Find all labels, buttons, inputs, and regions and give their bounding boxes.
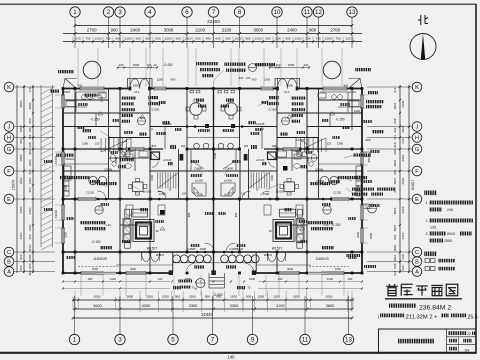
north arrow label BEI <box>418 15 428 25</box>
stair door arcs lower <box>157 192 166 196</box>
svg-text:4: 4 <box>148 9 152 16</box>
grid bubble axis B left <box>4 257 14 267</box>
type label left <box>60 176 90 179</box>
window bottom wall left2 <box>126 271 146 275</box>
svg-text:1500: 1500 <box>237 247 244 251</box>
svg-text:1500: 1500 <box>146 295 153 299</box>
svg-text:A: A <box>151 127 153 131</box>
svg-text:4200: 4200 <box>142 303 151 308</box>
svg-text:945: 945 <box>393 142 397 147</box>
grid bubble axis 9 bottom <box>247 334 257 344</box>
kitchen counter right <box>347 92 349 112</box>
kitchen window left <box>80 86 104 90</box>
north arrow needle <box>421 34 425 60</box>
svg-text:900: 900 <box>19 138 23 143</box>
interior wall col x307 <box>306 89 308 274</box>
svg-text:M-1: M-1 <box>134 90 139 94</box>
stair shaft square left <box>151 152 160 160</box>
svg-text:-0.300: -0.300 <box>213 293 222 297</box>
kitchen window right <box>323 86 347 90</box>
extension lines right <box>362 94 368 96</box>
sofa strip left <box>123 219 131 243</box>
svg-text:72: 72 <box>191 286 195 290</box>
interior wall col x108.5 <box>108 89 110 200</box>
svg-text:1000: 1000 <box>369 232 373 239</box>
legend row 2 <box>425 267 430 271</box>
partition x165 <box>164 127 166 150</box>
svg-text:3300: 3300 <box>230 303 239 308</box>
partition storage left <box>63 163 109 165</box>
svg-text:Ø100: Ø100 <box>447 232 455 236</box>
building exterior top wall <box>63 88 130 90</box>
svg-text:2400: 2400 <box>114 157 118 163</box>
bottom overall dimension 22440 <box>73 317 352 319</box>
partition y140 center <box>187 137 214 139</box>
party wall col x213.5 <box>213 89 215 274</box>
svg-text:2100: 2100 <box>222 27 232 32</box>
svg-text:1500: 1500 <box>273 295 280 299</box>
svg-text:1800: 1800 <box>28 159 32 166</box>
svg-text:11: 11 <box>304 9 311 16</box>
svg-text:140: 140 <box>228 355 236 360</box>
svg-text:4200: 4200 <box>276 303 285 308</box>
svg-text:-0.300: -0.300 <box>151 108 160 112</box>
svg-text:22200: 22200 <box>207 19 220 24</box>
svg-text:3000: 3000 <box>94 295 101 299</box>
svg-text:2400: 2400 <box>28 207 32 214</box>
svg-text:1200: 1200 <box>95 37 102 41</box>
grid bubble axis 13 bottom <box>343 334 353 344</box>
svg-text:900: 900 <box>285 37 290 41</box>
svg-text:C: C <box>415 250 419 256</box>
grid bubble axis 5 bottom <box>168 334 178 344</box>
garage door track right <box>309 266 349 268</box>
grid bubble axis G right <box>412 144 422 154</box>
svg-text:6: 6 <box>185 9 189 16</box>
square table with chairs left <box>133 182 144 192</box>
svg-text:900: 900 <box>135 37 140 41</box>
svg-text:1800: 1800 <box>401 155 405 162</box>
interior wall col x187 <box>186 89 188 150</box>
grid bubble axis E left <box>4 194 14 204</box>
svg-text:1: 1 <box>73 337 77 344</box>
svg-text:900: 900 <box>245 37 250 41</box>
entrance double door M-1 left <box>130 79 149 89</box>
stair fixtures dark <box>180 154 184 161</box>
svg-text:C2006: C2006 <box>54 209 58 218</box>
svg-text:-0.450: -0.450 <box>254 63 263 67</box>
svg-text:1300: 1300 <box>264 78 271 82</box>
svg-text:H: H <box>7 136 11 142</box>
svg-text:11: 11 <box>302 337 309 344</box>
interior wall col x150 <box>149 89 151 200</box>
bedroom label left <box>77 126 85 129</box>
stair upper door arc left <box>152 161 158 167</box>
svg-text:±0.000: ±0.000 <box>276 190 285 194</box>
dining table left <box>190 103 203 116</box>
svg-text:12: 12 <box>315 9 322 16</box>
svg-text:900: 900 <box>175 295 180 299</box>
svg-text:1500: 1500 <box>150 175 154 181</box>
svg-text:E: E <box>7 197 11 203</box>
corner tables left <box>125 209 130 217</box>
building exterior bottom wall <box>63 272 173 274</box>
corner tables right <box>297 209 302 217</box>
svg-text:240: 240 <box>119 63 124 67</box>
svg-text:2700: 2700 <box>330 27 340 32</box>
svg-text:120: 120 <box>345 37 350 41</box>
grid bubble axis A left <box>4 267 14 277</box>
type label right <box>337 176 367 179</box>
title block drawing name <box>398 339 434 344</box>
svg-text:3000: 3000 <box>164 27 174 32</box>
sofa strip right <box>296 219 304 243</box>
svg-text:1680: 1680 <box>224 193 230 197</box>
svg-text:800: 800 <box>367 157 371 162</box>
porch columns right group <box>221 255 229 263</box>
svg-text:1.: 1. <box>426 201 429 205</box>
svg-text:C1215: C1215 <box>54 155 58 164</box>
building exterior right wall <box>361 89 363 274</box>
svg-text:G: G <box>415 147 419 153</box>
svg-text:180: 180 <box>348 277 353 281</box>
svg-text:13: 13 <box>345 337 352 344</box>
window bottom wall right2 <box>279 271 299 275</box>
balcony door arcs bottom <box>186 263 194 270</box>
window left wall mid C1215 <box>61 152 65 165</box>
svg-text:750: 750 <box>315 37 320 41</box>
svg-text:1.30: 1.30 <box>323 223 329 227</box>
left dimension chain outer <box>23 85 25 273</box>
svg-text:3600: 3600 <box>93 303 102 308</box>
inner dimension line above entries <box>117 67 158 69</box>
window bottom wall left W1527 <box>81 271 103 275</box>
svg-text:2400: 2400 <box>306 157 310 163</box>
sofa set right <box>264 205 271 215</box>
svg-text:300: 300 <box>28 270 32 275</box>
grid bubble axis J left <box>4 122 14 132</box>
svg-text:1050: 1050 <box>401 126 405 133</box>
extension lines bottom <box>80 275 82 296</box>
svg-text:100: 100 <box>276 63 281 67</box>
svg-text:15070: 15070 <box>12 180 16 191</box>
fixtures under top wall <box>190 90 193 93</box>
svg-text:±0.050: ±0.050 <box>195 179 203 183</box>
svg-text:1050: 1050 <box>28 254 32 261</box>
svg-text:2.: 2. <box>426 219 429 223</box>
svg-text:13: 13 <box>349 9 356 16</box>
structural columns <box>62 87 364 274</box>
svg-text:3300: 3300 <box>356 232 360 238</box>
svg-text:C1515: C1515 <box>62 90 71 94</box>
kitchen note stack left <box>121 97 136 100</box>
svg-text:J: J <box>8 125 11 131</box>
wc fixtures left <box>110 154 115 161</box>
svg-text:B: B <box>7 260 11 266</box>
svg-text:1800: 1800 <box>64 185 68 191</box>
svg-text:3000: 3000 <box>253 27 263 32</box>
interior door arcs <box>120 141 127 149</box>
detail mark circle right <box>323 206 331 214</box>
svg-text:2400: 2400 <box>401 207 405 214</box>
svg-text:±0.050: ±0.050 <box>224 179 232 183</box>
extra tiny labels <box>78 103 88 106</box>
svg-text:1800: 1800 <box>287 84 294 88</box>
svg-text:C1205: C1205 <box>163 122 172 126</box>
svg-text:900: 900 <box>401 254 405 259</box>
detail mark circle bottom center <box>196 278 205 287</box>
bay window left C1205 <box>126 147 144 151</box>
svg-text:1050: 1050 <box>162 295 169 299</box>
grid bubble axis 11 top <box>302 7 312 17</box>
grid bubble axis J right <box>412 122 422 132</box>
porch columns verticals <box>172 252 174 273</box>
sheet frame bottom <box>0 352 477 354</box>
svg-text:900: 900 <box>181 144 186 148</box>
interior wall col x277 <box>276 89 278 200</box>
bathtub left <box>64 166 71 179</box>
grid bubble axis H left <box>4 133 14 143</box>
svg-text:900: 900 <box>155 37 160 41</box>
svg-text:4120: 4120 <box>110 277 117 281</box>
svg-text:600: 600 <box>401 265 405 270</box>
svg-text:3600: 3600 <box>326 303 335 308</box>
svg-text:15070: 15070 <box>411 180 415 191</box>
interior dim line2 under building <box>63 288 170 290</box>
corner wedge left <box>63 79 77 89</box>
svg-text:1380: 1380 <box>82 142 89 146</box>
svg-text:400: 400 <box>28 187 32 192</box>
svg-text:900: 900 <box>344 84 349 88</box>
svg-text:900: 900 <box>19 254 23 259</box>
svg-text:3300: 3300 <box>64 232 68 238</box>
washer squares right <box>297 152 302 157</box>
window bottom wall right W1527 <box>322 271 344 275</box>
svg-text:3000: 3000 <box>130 267 136 271</box>
svg-text:7: 7 <box>98 206 100 210</box>
sheet frame top <box>0 3 477 5</box>
svg-text:3000: 3000 <box>393 245 397 252</box>
svg-text:1500: 1500 <box>200 247 207 251</box>
svg-text:1050: 1050 <box>393 255 397 262</box>
entrance double door M-1 right <box>278 79 297 89</box>
grid bubble axis C right <box>412 247 422 257</box>
svg-text:C1505: C1505 <box>187 247 196 251</box>
svg-text:900: 900 <box>401 138 405 143</box>
grid bubble axis 1 bottom <box>69 334 79 344</box>
svg-text:3000: 3000 <box>28 244 32 251</box>
svg-text:C1215: C1215 <box>296 138 305 142</box>
svg-text:M0821: M0821 <box>156 253 165 257</box>
kitchen note stack right <box>291 97 306 100</box>
svg-text:F: F <box>7 169 11 175</box>
window right wall lower2 <box>360 228 364 243</box>
grid bubble axis 13 top <box>347 7 357 17</box>
svg-text:1500: 1500 <box>230 295 237 299</box>
grid bubble axis E right <box>412 194 422 204</box>
svg-text:400: 400 <box>393 234 397 239</box>
grid bubble axis 4 top <box>145 7 155 17</box>
grid bubble axis 7 top <box>208 7 218 17</box>
living room centerpiece right <box>273 220 294 242</box>
svg-text:1200: 1200 <box>28 177 32 184</box>
svg-text:900: 900 <box>393 118 397 123</box>
svg-text:7: 7 <box>211 337 215 344</box>
window top wall right C1206 <box>261 86 273 90</box>
svg-text:400: 400 <box>393 169 397 174</box>
grid bubble axis B right <box>412 257 422 267</box>
grid bubble axis 7 bottom <box>207 334 217 344</box>
svg-text:900: 900 <box>175 37 180 41</box>
svg-text:1200: 1200 <box>100 95 104 102</box>
partition baths right <box>277 157 319 159</box>
interior wall col x352 <box>351 89 353 131</box>
svg-text:900: 900 <box>393 263 397 268</box>
detail circle right edge <box>368 204 377 213</box>
room and elevation labels <box>82 129 91 132</box>
stair walls right <box>248 149 250 199</box>
svg-text:900: 900 <box>28 118 32 123</box>
elevation markers <box>140 115 145 118</box>
svg-text:1800: 1800 <box>19 154 23 161</box>
svg-text:900: 900 <box>234 212 238 217</box>
svg-text:-0.150: -0.150 <box>90 118 99 122</box>
svg-text:+0.020: +0.020 <box>256 158 265 162</box>
svg-text:C0606: C0606 <box>315 168 323 172</box>
svg-text:M0921: M0921 <box>66 157 75 161</box>
bottom dimension row 2 <box>73 308 352 310</box>
svg-text:3600: 3600 <box>393 103 397 110</box>
kitchen counter lower left <box>63 106 87 108</box>
garage door right JLM3029 <box>308 272 328 275</box>
grid bubble axis C left <box>4 247 14 257</box>
window right wall mid <box>360 152 364 165</box>
svg-text:3.: 3. <box>426 232 429 236</box>
leader lines <box>56 95 356 196</box>
detail circle mid left <box>138 117 146 125</box>
svg-text:1200: 1200 <box>354 109 361 113</box>
svg-text:1010: 1010 <box>235 37 242 41</box>
svg-text:E: E <box>415 197 419 203</box>
svg-text:740: 740 <box>28 134 32 139</box>
svg-text:3000: 3000 <box>326 295 333 299</box>
svg-text:±0.000: ±0.000 <box>143 190 152 194</box>
svg-text:M-1: M-1 <box>284 90 289 94</box>
grid bubble axis 10 top <box>272 7 282 17</box>
svg-text:3300: 3300 <box>189 303 198 308</box>
svg-text:750: 750 <box>85 37 90 41</box>
svg-text:120: 120 <box>327 142 332 146</box>
svg-text:3: 3 <box>118 337 122 344</box>
bathroom door diagonals <box>192 161 204 169</box>
svg-text:900: 900 <box>187 212 191 217</box>
svg-text:900: 900 <box>28 263 32 268</box>
svg-text:600: 600 <box>195 37 200 41</box>
title block project name <box>449 331 467 335</box>
window left wall lower2 C1505 <box>61 228 65 243</box>
window left wall lower C2006 <box>61 205 65 220</box>
svg-text:1500: 1500 <box>288 63 295 67</box>
svg-text:1200: 1200 <box>255 37 262 41</box>
stair flight upper-left <box>101 138 131 152</box>
grid bubble axis F left <box>4 166 14 176</box>
svg-text:240: 240 <box>304 63 309 67</box>
building exterior left wall <box>62 89 64 274</box>
interior wall row E y199 <box>63 198 362 200</box>
interior wall row y100 <box>63 99 109 101</box>
interior wall row J y126.5 <box>63 126 120 128</box>
living room centerpiece left <box>133 220 154 242</box>
tv cabinet top right <box>280 209 296 217</box>
drawing title SHOUCENG PINGMIANTU <box>386 284 398 296</box>
window E wall left <box>78 197 96 201</box>
dining room text stack right <box>269 96 279 99</box>
svg-text:1200: 1200 <box>325 37 332 41</box>
svg-text:1.30: 1.30 <box>105 223 111 227</box>
grid bubble axis K left <box>4 82 14 92</box>
extension lines top <box>77 48 79 86</box>
svg-text:130.: 130. <box>430 226 437 230</box>
dining table right <box>225 103 238 116</box>
svg-text:W1527: W1527 <box>147 247 158 251</box>
svg-text:170: 170 <box>393 87 397 92</box>
partition storage right <box>319 163 363 165</box>
svg-text:3600: 3600 <box>19 100 23 107</box>
grid bubble axis K right <box>412 82 422 92</box>
title block divider vertical <box>446 329 448 353</box>
detail mark circle left <box>95 206 103 214</box>
svg-text:750: 750 <box>335 37 340 41</box>
kitchen counter left <box>75 92 77 112</box>
svg-text:1200: 1200 <box>165 37 172 41</box>
partition garage left <box>149 199 151 252</box>
svg-text:900: 900 <box>305 37 310 41</box>
bedroom label right <box>342 126 350 129</box>
svg-text:900: 900 <box>244 144 249 148</box>
svg-text:2100: 2100 <box>195 27 205 32</box>
svg-text:9: 9 <box>251 337 255 344</box>
svg-text:900: 900 <box>205 295 210 299</box>
svg-text:-0.450: -0.450 <box>163 63 172 67</box>
garage door track left <box>78 266 118 268</box>
svg-text:900: 900 <box>309 27 317 32</box>
svg-text:A: A <box>7 270 11 276</box>
grid bubble axis G left <box>4 144 14 154</box>
svg-text:150: 150 <box>28 127 32 132</box>
wardrobe right wall <box>356 176 361 181</box>
svg-text:1500: 1500 <box>133 63 140 67</box>
left dimension chain inner <box>32 85 34 273</box>
top overall dimension 22200 <box>75 25 352 27</box>
entrance recess left <box>128 77 153 79</box>
grid bubble axis 12 top <box>313 7 323 17</box>
svg-text:900: 900 <box>252 78 257 82</box>
svg-text:C0606: C0606 <box>104 168 112 172</box>
svg-text:170: 170 <box>75 37 80 41</box>
svg-text:04: 04 <box>465 347 470 352</box>
svg-text:900: 900 <box>239 76 244 80</box>
grid bubble axis 6 top <box>182 7 192 17</box>
svg-text:7: 7 <box>200 279 202 283</box>
svg-text:236.84M 2: 236.84M 2 <box>419 305 451 312</box>
living room double door to porch left <box>142 253 160 262</box>
svg-text:1500: 1500 <box>189 295 196 299</box>
ac units right wall <box>363 152 370 157</box>
svg-text:900: 900 <box>225 37 230 41</box>
window right wall lower <box>360 205 364 220</box>
basin circles right <box>320 176 328 184</box>
svg-text:5: 5 <box>171 337 175 344</box>
